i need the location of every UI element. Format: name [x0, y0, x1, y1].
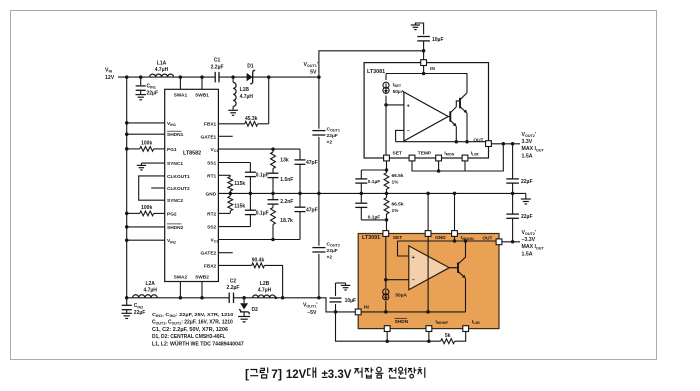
svg-text:D1: D1: [247, 64, 254, 70]
label 66.5k B: [392, 202, 404, 215]
svg-text:MAX IOUT: MAX IOUT: [522, 244, 545, 250]
pin ILIM square U2: [462, 155, 468, 161]
label 5k: [445, 333, 451, 339]
op-amp U2 LT3081 box: [364, 63, 488, 158]
svg-text:CIN1: CIN1: [147, 84, 156, 90]
svg-text:SET: SET: [393, 235, 402, 241]
svg-text:COUT1: COUT1: [327, 126, 340, 132]
capacitor COUT1: [312, 77, 325, 193]
svg-text:SHDN: SHDN: [395, 319, 409, 325]
capacitor 22uF top right: [506, 144, 519, 194]
current source ISET: [383, 74, 389, 105]
label 100k PG2: [141, 205, 152, 211]
svg-text:GATE1: GATE1: [201, 134, 217, 140]
wire IMONN internal: [454, 236, 456, 241]
label pin ILIM U3: [472, 319, 480, 325]
label pin GND: [206, 191, 217, 197]
svg-text:GND: GND: [435, 235, 446, 241]
wire VC1: [218, 148, 300, 150]
label pin GATE2: [201, 251, 217, 257]
label ISET: [393, 82, 405, 95]
label VOUT1 5V: [303, 62, 318, 75]
label VOUT2 minus: [522, 230, 545, 258]
label 115k RT2: [234, 203, 245, 209]
svg-text:66.5k: 66.5k: [392, 202, 404, 208]
svg-text:3.3V: 3.3V: [522, 139, 533, 145]
wire IN internal: [423, 66, 425, 74]
wire SS2: [218, 226, 250, 228]
label LT8582: [183, 150, 201, 156]
label L2A: [143, 281, 157, 294]
ground SYNC1: [137, 163, 146, 170]
label notes line3: [152, 327, 228, 333]
label LT3081: [367, 69, 385, 75]
svg-text:22µF: 22µF: [134, 310, 146, 316]
node IMON tie: [437, 169, 441, 173]
node SET node A: [385, 168, 389, 172]
svg-text:4.7µH: 4.7µH: [155, 67, 169, 73]
pin IMON square U2: [436, 155, 442, 161]
svg-text:×2: ×2: [327, 254, 333, 260]
label 66.5k A: [392, 173, 404, 186]
svg-text:VOUT2': VOUT2': [522, 132, 537, 138]
wire IMON stub: [438, 161, 440, 171]
svg-text:SHDN2: SHDN2: [167, 225, 184, 231]
label pin VIN2: [167, 238, 176, 244]
node GND 47pF: [298, 192, 302, 196]
label pin RT2: [207, 211, 216, 217]
svg-text:SYNC1: SYNC1: [167, 161, 183, 167]
node junction SWB1: [200, 75, 204, 79]
svg-text:MAX IOUT: MAX IOUT: [522, 146, 545, 152]
inductor L1B: [233, 77, 236, 110]
capacitor C1: [215, 72, 219, 83]
svg-text:115k: 115k: [234, 203, 245, 209]
label pin TEMP U2: [418, 150, 432, 156]
wire 5k to ILIM: [455, 332, 466, 342]
svg-text:4.7µH: 4.7µH: [143, 288, 157, 294]
diode D2: [239, 298, 249, 317]
label LT3091: [362, 235, 380, 241]
node bus SHDN1: [125, 132, 129, 136]
wire LT3091 bottom net: [336, 312, 441, 341]
wire bottom rail U3: [358, 311, 465, 313]
svg-text:±3.3V: ±3.3V: [322, 369, 352, 381]
svg-text:PG1: PG1: [167, 147, 177, 153]
label pin SHDN1: [167, 131, 184, 138]
label pin RT1: [207, 173, 216, 179]
label pin SYNC1: [167, 161, 183, 167]
svg-text:IN: IN: [364, 305, 369, 311]
current source 50uA U3: [383, 289, 389, 312]
svg-text:0.1µF: 0.1µF: [368, 179, 380, 185]
pin SHDN square U3: [384, 326, 390, 332]
capacitor 10uF neg: [330, 283, 346, 312]
label pin SET U2: [393, 150, 402, 156]
node VC2 comp junction: [271, 238, 275, 242]
capacitor C2: [229, 293, 233, 304]
node junction FBX1 riser: [267, 75, 271, 79]
wire SET column top: [386, 161, 388, 170]
svg-text:22µF: 22µF: [327, 133, 338, 139]
svg-text:FBX2: FBX2: [204, 263, 217, 269]
svg-text:90.4k: 90.4k: [252, 258, 265, 264]
svg-text:C2: C2: [230, 278, 237, 284]
label pin SWB2: [195, 275, 209, 281]
node Q2 emitter: [465, 140, 469, 144]
label L2B: [258, 281, 272, 294]
resistor 100k PG2: [140, 211, 154, 216]
label notes line2: [152, 319, 233, 325]
wire FBX2: [218, 264, 251, 266]
label 0.1uF SS2: [256, 210, 269, 216]
label 45.3k: [245, 116, 258, 122]
node bus SHDN2: [125, 225, 129, 229]
wire GND row: [218, 192, 525, 194]
wire SS1: [218, 162, 250, 164]
label pin SWA2: [174, 275, 188, 281]
capacitor 47pF top: [295, 149, 306, 193]
label 50uA U3: [395, 293, 407, 299]
node GND col: [426, 192, 430, 196]
svg-text:5V: 5V: [310, 69, 317, 75]
wire ILIM stub: [464, 161, 466, 171]
svg-text:47pF: 47pF: [306, 207, 318, 213]
svg-text:CLKOUT2: CLKOUT2: [167, 186, 190, 192]
wire VOUT1 to LT3081 IN: [319, 51, 424, 77]
svg-text:22µF: 22µF: [521, 179, 533, 185]
wire GATE1 stub: [218, 135, 232, 137]
resistor 90.4k: [252, 263, 265, 268]
wire minus feedback U2: [396, 130, 404, 141]
svg-text:L2B: L2B: [260, 281, 270, 287]
svg-text:CIN2: CIN2: [134, 303, 143, 309]
svg-text:PG2: PG2: [167, 211, 177, 217]
svg-text:D2: D2: [252, 307, 259, 313]
node IMONN col: [453, 192, 457, 196]
node bus bottom: [125, 296, 129, 300]
node junction SWB2: [200, 296, 204, 300]
label pin SYNC2: [167, 198, 183, 204]
pin IMONN square U3: [452, 231, 458, 237]
resistor 18.7k: [271, 208, 276, 240]
wire VIN rail: [118, 76, 319, 78]
capacitor 1.5nF: [268, 169, 279, 194]
label notes line5: [152, 341, 244, 348]
label pin GATE1: [201, 134, 217, 140]
wire SHDN stub: [386, 332, 388, 342]
svg-text:1.5A: 1.5A: [522, 153, 533, 159]
label pin GND U3: [435, 235, 446, 241]
label pin VIN1: [167, 121, 176, 127]
node VIN label: [105, 68, 115, 82]
svg-text:7]: 7]: [271, 367, 282, 381]
wire SET internal: [385, 105, 387, 155]
wire SHDN1: [127, 133, 165, 135]
pin SET square U3: [383, 231, 389, 237]
wire OUT2 plus: [491, 143, 520, 145]
svg-text:13k: 13k: [280, 158, 289, 164]
svg-text:SYNC2: SYNC2: [167, 198, 183, 204]
node junction FBX2 net: [281, 296, 285, 300]
label VOUT1 minus: [303, 303, 318, 316]
label pin CLKOUT1: [167, 174, 190, 180]
wire SET column bottom: [386, 220, 388, 231]
resistor 13k: [271, 149, 276, 168]
node GND bottom U3: [426, 310, 430, 314]
wire CLKOUT1 SYNC2 loop: [139, 176, 165, 200]
node bus PG1: [125, 147, 129, 151]
label pin PG2: [167, 211, 177, 217]
inductor L1A: [150, 74, 174, 77]
wire GND internal U3: [427, 236, 429, 312]
label pin VC1: [211, 147, 219, 153]
transistor Q1 LT3081: [448, 101, 460, 142]
resistor 100k PG1: [140, 147, 154, 152]
wire GND column LT3091: [427, 193, 429, 230]
label pin IMONN U3: [461, 235, 474, 241]
inductor L2A: [133, 295, 158, 298]
op-amp U1 LT8582 box: [165, 89, 219, 281]
ground GND row end: [521, 193, 531, 204]
svg-text:L1B: L1B: [240, 87, 250, 93]
wire RT2: [218, 212, 230, 214]
svg-text:10µF: 10µF: [345, 298, 357, 304]
svg-text:L2A: L2A: [145, 281, 155, 287]
ground CIN1: [136, 95, 146, 100]
node bus PG2: [125, 212, 129, 216]
node SHDN net: [385, 339, 389, 343]
svg-text:1%: 1%: [392, 179, 400, 185]
op-amp U2 triangle: [404, 92, 448, 141]
capacitor 0.1uF SS2: [245, 193, 256, 226]
ground D2: [238, 317, 250, 322]
node junction left bus: [125, 75, 129, 79]
capacitor 0.1uF SS1: [245, 163, 256, 194]
wire GATE2 stub: [218, 252, 232, 254]
label pin FBX2: [204, 263, 217, 269]
wire FBX1: [218, 123, 268, 125]
svg-text:L1A: L1A: [157, 61, 167, 67]
label L1B: [240, 87, 254, 100]
node minus SET U3: [384, 278, 388, 282]
pin IN square: [421, 60, 427, 66]
svg-text:2.2µF: 2.2µF: [227, 285, 240, 291]
svg-text:OUT: OUT: [473, 138, 483, 144]
wire FBX2 to out: [264, 265, 282, 297]
label pin VC2: [211, 238, 219, 244]
svg-text:LT3091: LT3091: [362, 235, 380, 241]
label pin SHDN U3: [395, 318, 409, 325]
svg-text:1.5nF: 1.5nF: [280, 177, 293, 183]
label notes line4: [152, 334, 226, 340]
node OUT2 minus: [511, 240, 515, 244]
caption figure 7: [245, 367, 425, 381]
node IN internal junction: [422, 72, 426, 76]
svg-text:18.7k: 18.7k: [280, 218, 293, 224]
wire bottom rail: [127, 297, 319, 299]
label 47pF bottom: [306, 207, 318, 213]
node junction IN top: [422, 49, 426, 53]
capacitor 0.1uF B: [355, 193, 367, 220]
svg-text:[: [: [245, 367, 249, 381]
pin ILIM square U3: [463, 326, 469, 332]
label C2 value: [227, 278, 240, 291]
svg-text:D1, D2: CENTRAL CMSH3-40FL: D1, D2: CENTRAL CMSH3-40FL: [152, 334, 226, 340]
label 115k RT1: [234, 181, 245, 187]
svg-text:0.1µF: 0.1µF: [256, 172, 269, 178]
svg-text:SWA2: SWA2: [174, 275, 188, 281]
label 2.2nF: [280, 199, 293, 205]
node IMONN internal: [453, 239, 457, 243]
node GND COUT: [317, 192, 321, 196]
ground CIN2: [122, 313, 132, 318]
label C1 value: [211, 58, 224, 71]
label pin ILIM U2: [471, 150, 479, 156]
svg-text:CLKOUT1: CLKOUT1: [167, 174, 190, 180]
label COUT2 value: [327, 241, 340, 260]
label CIN2 value: [134, 303, 146, 316]
wire SYNC1: [141, 162, 164, 164]
svg-text:GND: GND: [206, 191, 217, 197]
wire out rail U2: [396, 141, 486, 143]
op-amp U3 LT3091 box: [358, 234, 499, 329]
label 13k: [280, 158, 289, 164]
label 10uF neg: [345, 298, 357, 304]
pin IN square U3: [355, 309, 361, 315]
label 100k PG1: [141, 141, 152, 147]
svg-text:22µF: 22µF: [521, 214, 533, 220]
op-amp U3 triangle: [409, 246, 450, 290]
svg-text:0.1µF: 0.1µF: [256, 210, 269, 216]
label notes line1: [152, 312, 233, 318]
svg-text:100k: 100k: [141, 141, 152, 147]
capacitor 22uF bottom right: [506, 193, 519, 241]
svg-text:4.7µH: 4.7µH: [258, 288, 272, 294]
wire 0.1uF B tie: [361, 219, 386, 221]
svg-text:5k: 5k: [445, 333, 451, 339]
node IMONP net: [427, 339, 431, 343]
node GND right cap: [511, 192, 515, 196]
label pin OUT U2: [473, 138, 483, 144]
pin OUT square U3: [496, 239, 502, 245]
capacitor 2.2nF: [268, 193, 279, 207]
svg-text:TEMP: TEMP: [418, 150, 432, 156]
node junction D2: [242, 296, 246, 300]
label COUT1 value: [327, 126, 340, 145]
label pin OUT U3: [482, 236, 492, 242]
label pin IN: [430, 66, 435, 72]
label pin IMON U2: [444, 150, 454, 156]
wire PG2 left: [127, 212, 165, 214]
wire plus input U2: [386, 104, 404, 106]
node OUT2 plus b: [511, 142, 515, 146]
ground 10uF neg: [341, 283, 350, 290]
wire IMONP stub: [428, 332, 430, 342]
svg-text:SS2: SS2: [207, 225, 216, 231]
node GND ss1cap: [249, 192, 253, 196]
label 10uF top: [432, 37, 444, 43]
label pin SET U3: [393, 235, 402, 241]
label pin IN U3: [364, 305, 369, 311]
wire VIN2: [127, 239, 165, 241]
node VC1 comp junction: [271, 147, 275, 151]
resistor 66.5k A: [384, 170, 389, 193]
wire 0.1uF A tie: [361, 169, 386, 171]
svg-text:SHDN1: SHDN1: [167, 132, 184, 138]
svg-text:VOUT1': VOUT1': [303, 303, 318, 309]
wire SHDN2: [127, 226, 165, 228]
node Q3 collector node: [464, 239, 468, 243]
node VOUT1 minus: [317, 296, 321, 300]
svg-text:1%: 1%: [392, 208, 400, 214]
label pin PG1: [167, 147, 177, 153]
node SET node B: [385, 218, 389, 222]
node SET internal junction: [384, 103, 388, 107]
node GND comp1: [271, 192, 275, 196]
svg-text:IN: IN: [430, 66, 435, 72]
label 1.5nF: [280, 177, 293, 183]
node OUT2 plus a: [502, 142, 506, 146]
label pin SHDN2: [167, 224, 184, 231]
node junction 10uF neg: [334, 310, 338, 314]
wire TEMP tie: [412, 144, 503, 171]
pin IMONP square U3: [426, 326, 432, 332]
node junction SWA1: [179, 75, 183, 79]
wire FBX1 riser: [268, 77, 270, 124]
svg-text:CIN1, CIN2: 22µF, 25V, X7R, 12: CIN1, CIN2: 22µF, 25V, X7R, 1210: [152, 312, 233, 318]
label 90.4k: [252, 258, 265, 264]
wire OUT2 minus: [502, 241, 520, 243]
wire SWA2 pin: [179, 282, 181, 298]
svg-text:45.3k: 45.3k: [245, 116, 258, 122]
svg-text:66.5k: 66.5k: [392, 173, 404, 179]
node GND 0.1uF: [360, 192, 364, 196]
capacitor 47pF bottom: [295, 193, 306, 239]
svg-text:115k: 115k: [234, 181, 245, 187]
svg-text:C1, C2: 2.2µF, 50V, X7R, 1206: C1, C2: 2.2µF, 50V, X7R, 1206: [152, 327, 228, 333]
resistor 45.3k: [245, 121, 258, 126]
svg-text:50µA: 50µA: [395, 293, 407, 299]
svg-text:22µF: 22µF: [147, 91, 159, 97]
wire SWA1 pin: [179, 77, 181, 89]
pin TEMP square U2: [409, 155, 415, 161]
wire SET internal U3: [385, 236, 387, 288]
wire VOUT1 minus to LT3091: [319, 298, 355, 312]
pin OUT square U2: [486, 141, 492, 147]
svg-text:RT2: RT2: [207, 211, 216, 217]
svg-text:22µF: 22µF: [327, 248, 338, 254]
svg-text:LT3081: LT3081: [367, 69, 385, 75]
inductor L2B: [253, 295, 276, 298]
wire SWB2 pin: [201, 282, 203, 298]
label L1A: [155, 61, 169, 74]
pin GND square U3: [425, 231, 431, 237]
capacitor 10uF top: [417, 37, 430, 51]
svg-text:LT8582: LT8582: [183, 150, 201, 156]
label 22uF bottom right: [521, 214, 533, 220]
wire VC2: [218, 239, 300, 241]
label pin IMONP U3: [436, 319, 449, 325]
svg-text:12V: 12V: [286, 369, 307, 381]
svg-text:SWB2: SWB2: [195, 275, 209, 281]
svg-text:RT1: RT1: [207, 173, 216, 179]
diode D1: [247, 70, 256, 84]
label 0.1uF B: [368, 214, 380, 220]
label pin CLKOUT2: [167, 186, 190, 192]
resistor 115k RT1: [228, 175, 233, 193]
svg-text:VOUT2': VOUT2': [522, 230, 537, 236]
